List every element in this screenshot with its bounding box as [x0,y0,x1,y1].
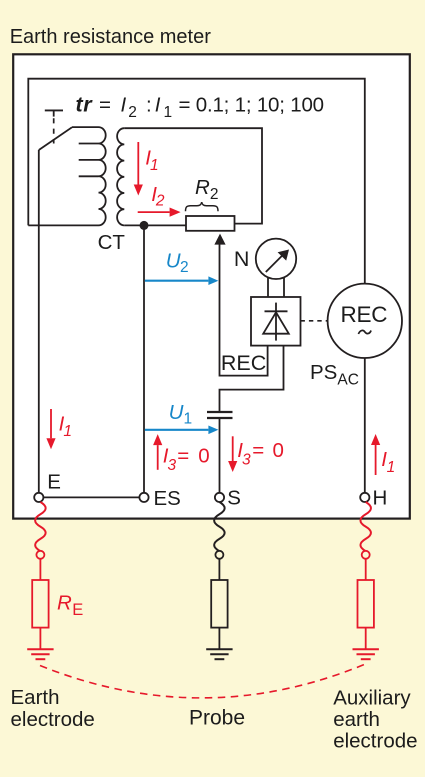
svg-text:I: I [121,94,127,117]
svg-text:CT: CT [98,231,126,254]
svg-text:Earth: Earth [11,686,60,709]
svg-text:electrode: electrode [333,729,417,752]
svg-text:I: I [155,94,161,117]
svg-text:3: 3 [168,457,177,474]
svg-text:REC: REC [221,351,266,375]
svg-text:= 0.1; 1; 10; 100: = 0.1; 1; 10; 100 [179,94,324,117]
svg-text:0: 0 [198,444,209,467]
svg-text:H: H [373,487,388,510]
svg-text:N: N [234,247,250,271]
svg-text:E: E [72,601,83,619]
svg-text:3: 3 [242,451,251,468]
svg-text:1: 1 [150,157,159,174]
svg-text:1: 1 [164,104,173,121]
svg-text:tr: tr [76,93,94,117]
svg-text:0: 0 [273,439,284,462]
svg-text:Probe: Probe [189,707,245,730]
svg-text:=: = [177,444,189,467]
svg-text:S: S [227,487,241,510]
svg-text:ES: ES [154,487,181,510]
svg-text:=: = [252,439,264,462]
svg-text:2: 2 [155,192,165,209]
svg-text::: : [146,94,152,117]
svg-text:1: 1 [184,411,193,428]
svg-text:2: 2 [128,104,137,121]
svg-text:1: 1 [63,423,72,440]
svg-text:E: E [47,471,61,494]
svg-text:earth: earth [333,708,380,731]
svg-text:1: 1 [387,459,396,476]
svg-text:REC: REC [340,302,387,327]
svg-text:Earth resistance meter: Earth resistance meter [10,26,212,48]
svg-text:electrode: electrode [11,708,95,731]
svg-text:=: = [99,94,111,117]
svg-text:R: R [57,592,72,615]
svg-text:U: U [166,249,181,272]
svg-text:2: 2 [180,259,189,276]
svg-text:U: U [169,401,184,424]
svg-text:Auxiliary: Auxiliary [333,687,411,710]
